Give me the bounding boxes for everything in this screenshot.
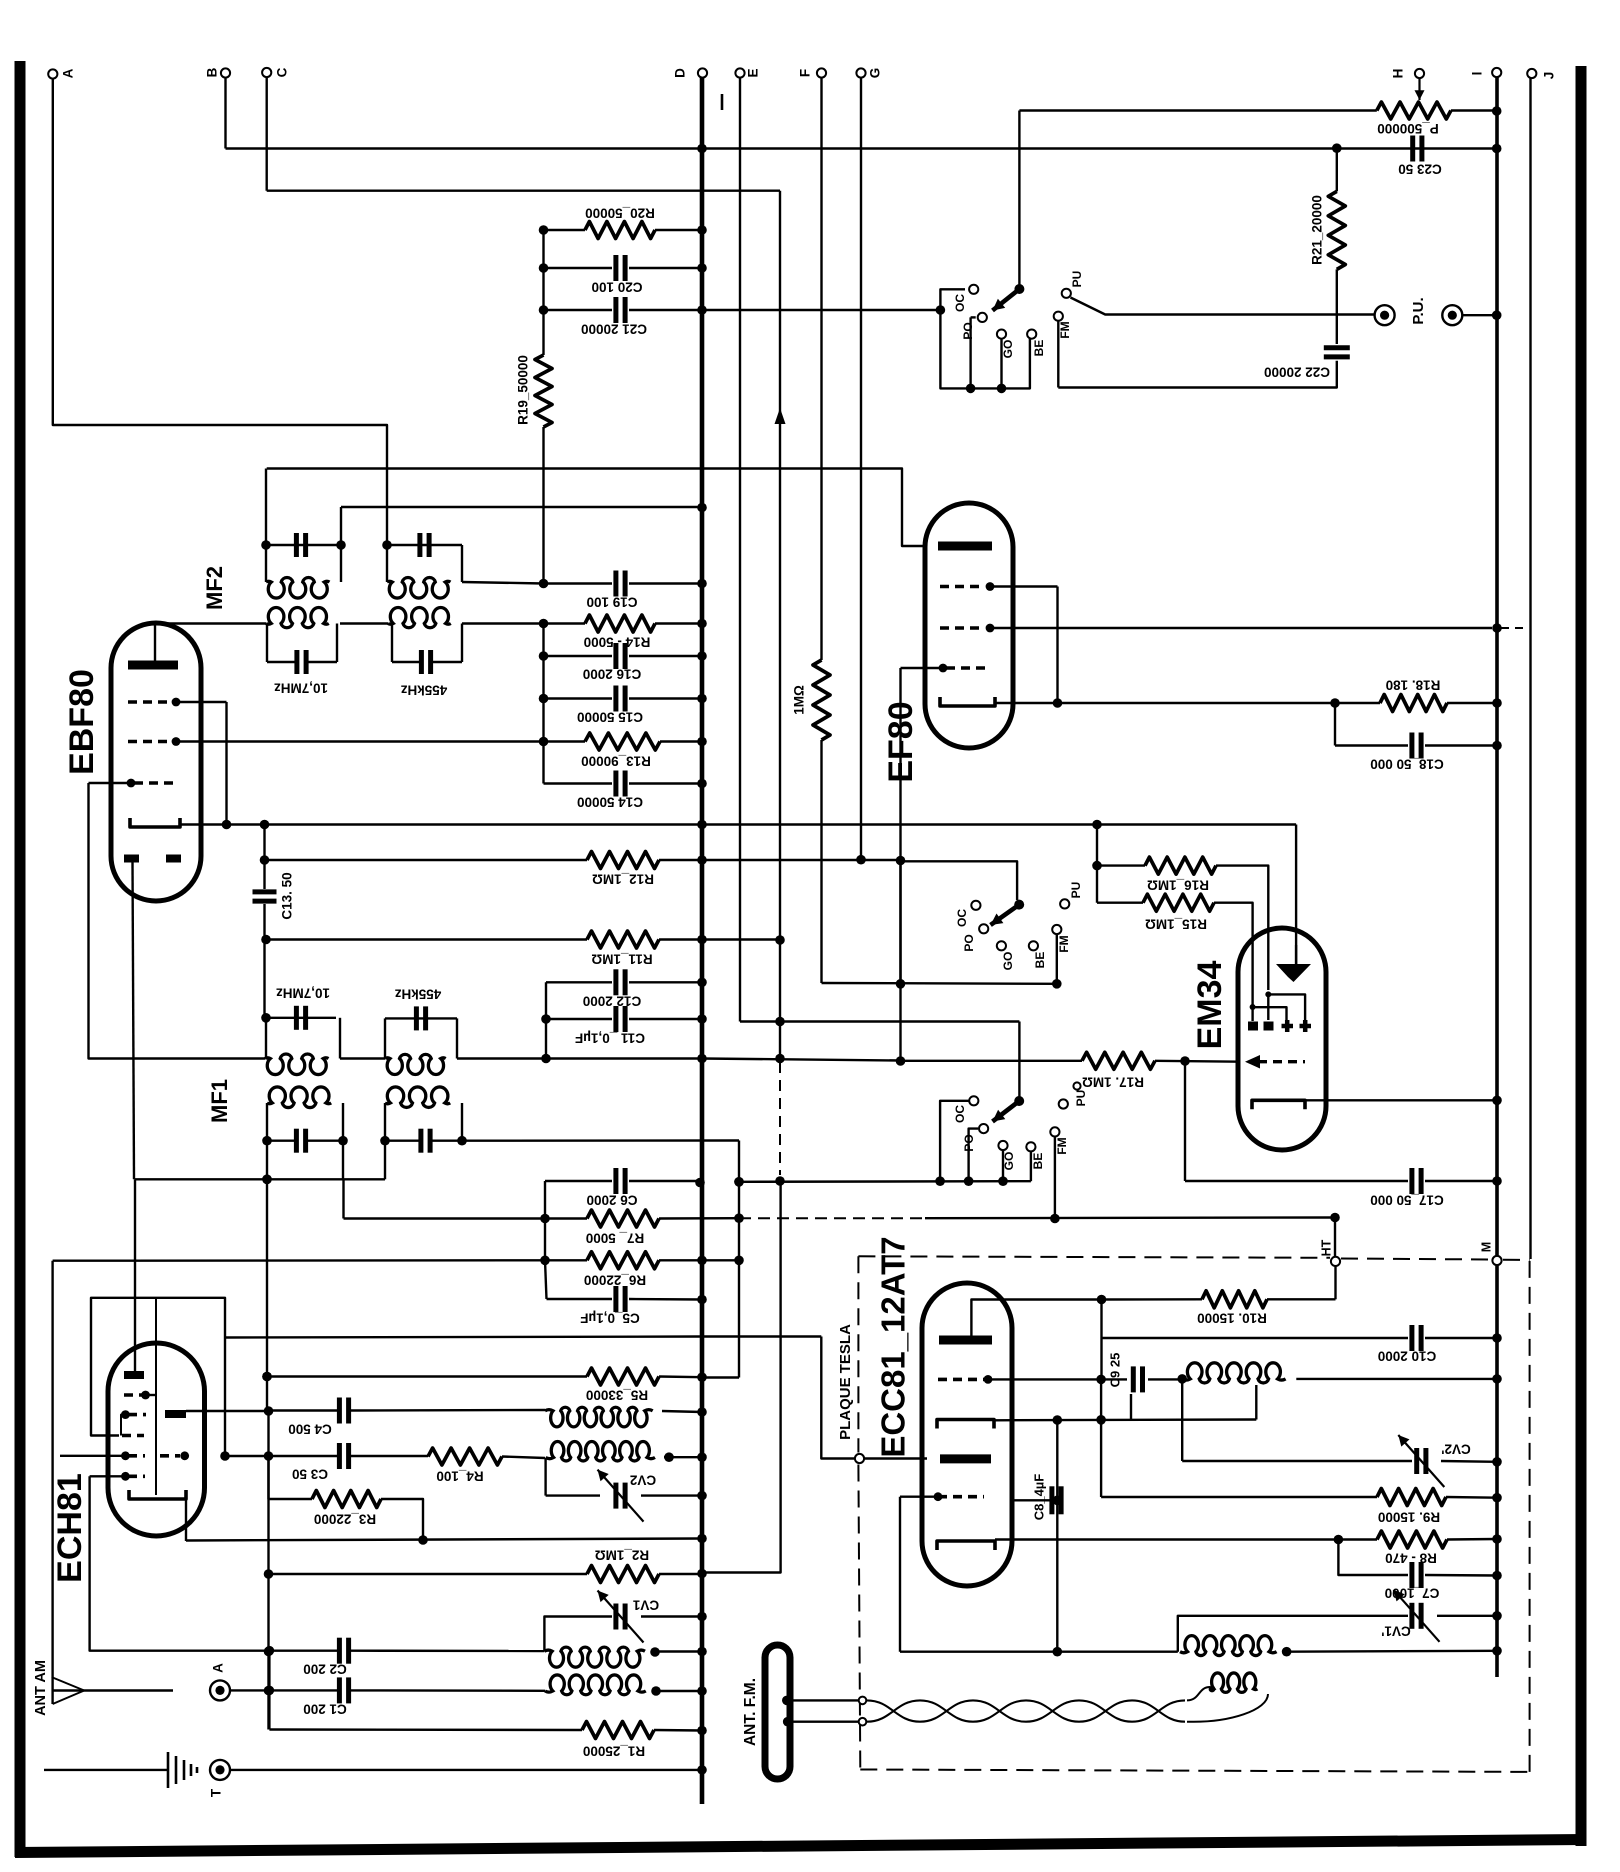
wire EF80 plate feed y468 — [267, 469, 927, 547]
label ECH81 — [51, 1473, 89, 1583]
node pot-bus — [1492, 106, 1502, 116]
label 10,7MHz MF2 — [274, 680, 328, 695]
switch S3 contact PO — [962, 1124, 988, 1181]
capacitor MF2-1 upper — [296, 533, 305, 557]
ECH81 top electrode — [124, 1343, 144, 1375]
svg-text:BE: BE — [1031, 1153, 1045, 1170]
switch S2 arm — [991, 900, 1025, 925]
svg-text:C17_50 000: C17_50 000 — [1370, 1192, 1444, 1207]
wire EM34 cathode to bus — [1305, 1096, 1502, 1106]
switch S2 contact OC — [955, 901, 980, 927]
wire rail C2-C1 — [268, 1651, 270, 1730]
wire MF1 upper cap line1 — [261, 1013, 336, 1023]
wire EF80 g1 down — [1056, 587, 1058, 704]
inductor MF2-1 upper coil — [266, 578, 329, 599]
wire CV1' riser — [1178, 1616, 1408, 1652]
svg-text:EBF80: EBF80 — [63, 669, 101, 775]
resistor R21 20000 — [1310, 191, 1346, 269]
wire line-A riser — [821, 1337, 855, 1459]
EF80 grid2 — [940, 624, 1492, 633]
wire B down — [224, 78, 226, 149]
wire MF2 secondary out y583 — [462, 582, 544, 584]
resistor R8 470 — [1377, 1531, 1502, 1565]
svg-text:FM: FM — [1057, 935, 1071, 952]
svg-text:EM34: EM34 — [1191, 961, 1229, 1050]
svg-text:FM: FM — [1055, 1137, 1069, 1154]
wire MF2-1 upper rails — [266, 469, 341, 583]
svg-text:R5_33000: R5_33000 — [586, 1387, 648, 1402]
EM34 electrode bars — [1248, 1022, 1274, 1031]
capacitor C23 50 — [1398, 136, 1442, 177]
wire F to switch2 net — [822, 982, 1057, 985]
wire MF1 coil link — [340, 1057, 385, 1059]
wire F down to 1M resistor — [820, 78, 822, 660]
wire ECH81 g5 down to C2 — [90, 1476, 270, 1650]
MF2 label — [202, 566, 227, 610]
svg-text:J: J — [1542, 72, 1557, 80]
svg-text:R3_22000: R3_22000 — [314, 1511, 376, 1526]
wire rail R7-R6 — [544, 1219, 546, 1261]
resistor R9 15000 — [1101, 1420, 1502, 1525]
svg-text:HT: HT — [1319, 1239, 1333, 1256]
svg-text:C14 50000: C14 50000 — [577, 794, 643, 809]
wire C vertical rail — [779, 191, 781, 1058]
label 10,7MHz MF1 — [276, 985, 330, 1000]
wire C22 down-left to switch1 FM — [1058, 361, 1337, 388]
wire switch2 feed — [901, 861, 1018, 984]
wire ECH81 plate out — [186, 1406, 273, 1416]
wire EF80 g3 riser — [896, 668, 906, 1066]
antenna ANT FM — [742, 1645, 790, 1779]
EM34 grid — [1245, 1055, 1305, 1069]
capacitor MF1-2 lower — [380, 1129, 467, 1153]
svg-text:CV2': CV2' — [1441, 1441, 1470, 1456]
wire E to switch3 pivot riser — [740, 1020, 1019, 1022]
svg-text:OC: OC — [955, 909, 969, 927]
ECH81 grid5 — [90, 1472, 145, 1481]
resistor R6 22000 — [53, 1252, 739, 1288]
node switch2 FM join — [1052, 979, 1062, 989]
svg-text:FM: FM — [1058, 321, 1072, 338]
svg-text:R6_22000: R6_22000 — [584, 1272, 646, 1287]
EM34 electrode plus2 — [1300, 1020, 1312, 1032]
wire E rail segment — [734, 1141, 744, 1378]
svg-text:A: A — [61, 68, 76, 78]
resistor R17 1M — [901, 1052, 1241, 1089]
svg-text:ANT. F.M.: ANT. F.M. — [742, 1678, 759, 1746]
ECC81 plate1 — [939, 1300, 1102, 1341]
terminal E — [735, 68, 760, 77]
node C23 right — [1492, 144, 1502, 154]
terminal A — [48, 68, 75, 78]
switch S2 contact PU — [1060, 882, 1083, 909]
inductor MF1-1 lower coil — [267, 1087, 331, 1108]
wire R6 corner to antenna — [51, 1261, 53, 1678]
resistor R1 25000 — [269, 1722, 706, 1759]
capacitor C18 50000 — [1335, 733, 1502, 772]
svg-text:M: M — [1479, 1242, 1493, 1252]
label EM34 — [1191, 961, 1229, 1050]
EM34 electrodes — [1250, 991, 1306, 1021]
capacitor C11 0.1uF — [541, 1006, 707, 1045]
svg-text:R20_50000: R20_50000 — [585, 205, 655, 220]
inductor FM coil — [1177, 1363, 1285, 1384]
terminal plaque tesla — [837, 1324, 864, 1463]
wire EF80 cathode line — [995, 698, 1380, 708]
inductor osc coil2 — [546, 1441, 674, 1462]
svg-text:455kHz: 455kHz — [400, 682, 447, 697]
terminal D — [673, 68, 708, 78]
svg-text:C4 500: C4 500 — [288, 1421, 332, 1436]
svg-text:R2_1MΩ: R2_1MΩ — [595, 1547, 650, 1562]
svg-text:A: A — [211, 1663, 226, 1673]
EF80 cathode — [940, 697, 995, 706]
capacitor MF1-1 upper — [296, 1006, 305, 1030]
wire line-A — [225, 1337, 821, 1338]
wire pot line — [1019, 109, 1496, 111]
tube EBF80 outline — [111, 623, 201, 901]
wire R17 node drop — [775, 1061, 1185, 1186]
node E-C cross — [775, 1017, 785, 1027]
wire B bus line y148 — [226, 147, 1497, 149]
jack P.U. left — [1375, 305, 1395, 325]
wire FM osc coil to bus — [1287, 1646, 1502, 1656]
wire MF1 jog y1179 — [135, 1141, 385, 1184]
wire R15R16 rail — [1092, 825, 1102, 903]
svg-text:C5_0,1µF: C5_0,1µF — [580, 1310, 640, 1325]
resistor R11 1M — [261, 931, 707, 966]
switch S2 contact PO — [962, 924, 988, 951]
potentiometer P 500000 — [1377, 102, 1451, 136]
wire C7 drop — [1338, 1540, 1408, 1576]
terminal B — [205, 67, 231, 77]
wire HT line dashed part — [739, 1217, 925, 1219]
capacitor C8 4uF — [1031, 1474, 1061, 1521]
wire rail R6-C5 — [545, 1260, 547, 1299]
inductor MF2-1 lower coil — [266, 607, 329, 627]
svg-text:C6 2000: C6 2000 — [586, 1192, 637, 1207]
MF1 label — [207, 1079, 232, 1123]
wire MF2-2 lower rails — [392, 624, 462, 663]
wire right bus I — [1495, 77, 1499, 1677]
jack T — [209, 1760, 230, 1797]
switch S3 contact FM — [1050, 1127, 1069, 1223]
switch S1 contact OC — [953, 285, 978, 312]
svg-text:CV1: CV1 — [632, 1597, 659, 1612]
svg-text:10,7MHz: 10,7MHz — [276, 985, 330, 1000]
svg-text:C3 50: C3 50 — [292, 1466, 328, 1481]
wire CV2' riser — [1181, 1379, 1183, 1461]
switch S3 contact PU — [1059, 1090, 1088, 1109]
switch S1 contact BE — [1027, 330, 1046, 357]
svg-text:C7_1000: C7_1000 — [1385, 1585, 1440, 1600]
svg-text:C19 100: C19 100 — [586, 594, 637, 609]
border frame bottom bar — [15, 1840, 1586, 1853]
resistor R12 1M — [260, 852, 901, 887]
EBF80 grid2 — [128, 737, 545, 746]
svg-text:10,7MHz: 10,7MHz — [274, 680, 328, 695]
wire A jack line — [230, 1686, 337, 1696]
label EF80 — [882, 701, 920, 782]
inductor osc coil1 — [545, 1407, 653, 1427]
svg-text:PLAQUE TESLA: PLAQUE TESLA — [837, 1324, 854, 1440]
wire C-line solid rail — [703, 1181, 781, 1573]
jack P.U. right — [1442, 305, 1462, 325]
svg-text:PU: PU — [1069, 882, 1083, 899]
svg-text:1MΩ: 1MΩ — [792, 685, 807, 715]
svg-text:R16_1MΩ: R16_1MΩ — [1147, 877, 1209, 892]
switch S3 contact GO — [998, 1141, 1016, 1181]
inductor FM coupling coil — [1209, 1673, 1258, 1692]
capacitor C7 1000 — [1385, 1562, 1502, 1600]
ECH81 plate hept — [165, 1410, 186, 1418]
resistor R3 22000 — [269, 1456, 424, 1540]
capacitor C4 500 — [269, 1398, 546, 1437]
inductor MF1-2 lower coil — [385, 1087, 450, 1108]
wire R10 line — [1097, 1295, 1202, 1305]
FM box dashed outline — [858, 1256, 1529, 1772]
inductor MF1-2 upper coil — [385, 1054, 446, 1074]
node MF1 out rail — [541, 1054, 551, 1064]
ECC81 cathode2 — [937, 1541, 995, 1550]
EF80 grid1 — [940, 582, 1058, 591]
svg-text:C1 200: C1 200 — [303, 1701, 347, 1716]
svg-text:PO: PO — [962, 1134, 976, 1151]
capacitor C13 50 — [253, 825, 295, 1018]
svg-text:R12_1MΩ: R12_1MΩ — [592, 871, 654, 886]
wire A terminal down-right-down to MF2 455kHz tank — [53, 79, 387, 543]
wire EBF80 heater lead — [133, 862, 135, 1179]
EM34 target — [1276, 945, 1311, 982]
jack A — [210, 1663, 230, 1701]
capacitor C3 50 — [225, 1443, 428, 1481]
capacitor C16 2000 — [539, 624, 707, 682]
wire C right — [267, 189, 780, 191]
wire AVC rail x267 — [262, 1141, 272, 1411]
wire C-node rail x543 — [542, 230, 544, 310]
svg-text:R4_100: R4_100 — [436, 1468, 483, 1483]
switch S1 contact FM — [1054, 312, 1072, 388]
resistor R13 90000 — [539, 699, 707, 769]
switch S2 contact FM — [1052, 925, 1071, 984]
wire C9 plate tap — [1130, 1394, 1132, 1420]
label 455kHz MF1 — [394, 986, 441, 1001]
resistor 1Mohm — [792, 660, 830, 740]
svg-text:C15 50000: C15 50000 — [577, 709, 643, 724]
ECC81 cathode1 — [937, 1420, 994, 1429]
wire coil1 to bus — [655, 1647, 707, 1657]
inductor MF2-2 upper coil — [387, 578, 450, 599]
wire rail C9-cath — [1100, 1379, 1102, 1419]
capacitor MF2-2 lower — [392, 650, 462, 674]
capacitor MF2-2 upper — [420, 533, 429, 557]
wire EBF80 plate to MF2 — [155, 622, 266, 624]
wire rail C12-C11 — [545, 982, 547, 1058]
resistor R18 180 — [1380, 677, 1502, 711]
wire AVC rail lower — [264, 1411, 274, 1730]
svg-text:P.U.: P.U. — [1410, 297, 1427, 324]
capacitor MF2-1 lower — [267, 650, 337, 674]
wire osc line1 — [662, 1407, 707, 1417]
wire E down — [739, 78, 741, 1022]
label PU pointer — [1073, 1082, 1080, 1089]
antenna ANT AM — [33, 1660, 173, 1716]
resistor R2 1M — [269, 1547, 707, 1582]
wire C8 rail — [1053, 1420, 1063, 1656]
svg-text:R19_50000: R19_50000 — [516, 355, 531, 425]
wire H wiper arrow — [1415, 78, 1425, 100]
wire ECH81 plate rail top — [134, 1179, 136, 1371]
svg-text:C21 20000: C21 20000 — [581, 321, 647, 336]
svg-text:C18_50 000: C18_50 000 — [1370, 756, 1444, 771]
tube EM34 outline — [1238, 928, 1326, 1150]
wire C down — [266, 77, 268, 191]
wire MF1-1 upper rails — [266, 1018, 340, 1059]
wire y507 to bus — [341, 503, 707, 513]
wire C rail dashes — [779, 1062, 781, 1175]
svg-text:PU: PU — [1070, 271, 1084, 288]
wire R21 top — [1336, 148, 1338, 191]
terminal M — [1479, 1242, 1501, 1265]
svg-text:GO: GO — [1002, 1152, 1016, 1171]
wire C21 net to switch1 — [936, 289, 965, 315]
node R20 top rail — [539, 225, 549, 235]
svg-text:ECC81_12AT7: ECC81_12AT7 — [875, 1236, 912, 1457]
ECH81 grid4 row — [121, 1451, 189, 1460]
EBF80 plate — [128, 623, 178, 665]
wire C18 drop — [1334, 703, 1336, 746]
wire T to bus — [230, 1765, 706, 1775]
terminal F — [798, 68, 827, 77]
wire MF2-1 lower rails — [267, 624, 337, 663]
wire feeder bottom — [783, 1717, 866, 1727]
border frame right bar — [1576, 66, 1587, 1846]
tube ECC81 outline — [922, 1283, 1012, 1586]
svg-text:C20 100: C20 100 — [591, 279, 642, 294]
EBF80 heater bars — [124, 855, 181, 863]
wire feeder top — [782, 1696, 866, 1706]
wire MF2-2 upper rails — [387, 545, 462, 582]
resistor R10 15000 — [1197, 1291, 1335, 1326]
wire R5 ext — [702, 1376, 739, 1378]
svg-text:C22 20000: C22 20000 — [1264, 364, 1330, 379]
wire HT line — [925, 1213, 1340, 1223]
wire ECH81 g4 left — [60, 1455, 125, 1457]
terminal H — [1391, 69, 1425, 79]
EBF80 grid1 — [128, 698, 227, 707]
capacitor C14 50000 — [544, 742, 707, 810]
wire C21 to switch1 — [702, 309, 940, 311]
terminal C — [262, 67, 289, 77]
tick I near bus — [721, 94, 724, 110]
svg-text:E: E — [746, 68, 761, 77]
capacitor C5 0.1uF — [547, 1286, 707, 1325]
wire C2 line — [265, 1646, 337, 1656]
node B-bus junction — [697, 144, 707, 154]
node g2 to I bus — [1492, 623, 1529, 633]
wire R7 stub — [342, 1179, 344, 1218]
svg-text:ECH81: ECH81 — [51, 1473, 89, 1583]
label P.U. — [1410, 297, 1427, 324]
capacitor C12 2000 — [546, 969, 707, 1008]
capacitor C15 50000 — [539, 656, 707, 724]
inductor MF2-2 lower coil — [388, 607, 451, 627]
svg-text:T: T — [209, 1788, 224, 1797]
EF80 plate — [938, 542, 992, 551]
resistor R5 33000 — [262, 1368, 707, 1402]
wire MF1 upper cap line2 — [385, 1017, 457, 1019]
svg-text:R7_ 5000: R7_ 5000 — [586, 1230, 645, 1245]
ECC81 grid2 — [900, 1492, 984, 1501]
svg-text:C23 50: C23 50 — [1398, 161, 1442, 176]
inductor MF1-1 upper coil — [265, 1054, 328, 1075]
capacitor C9 25 — [1107, 1353, 1182, 1393]
border frame left bar — [15, 61, 26, 1857]
capacitor C17 50000 — [1185, 1168, 1502, 1207]
wire switch3 pivot riser — [1018, 1022, 1020, 1102]
wire EM34 target riser — [1295, 825, 1297, 967]
wire rail R10-C10 — [1100, 1300, 1102, 1339]
inductor ant coil1 — [544, 1647, 659, 1667]
svg-text:C11 _0,1µF: C11 _0,1µF — [575, 1030, 645, 1045]
wire switch1 lower bus — [940, 310, 1030, 388]
label 455kHz MF2 — [400, 682, 447, 697]
ECH81 box wire — [91, 1298, 230, 1461]
ECH81 grid3 — [122, 1434, 144, 1438]
capacitor C22 20000 — [1264, 348, 1350, 380]
svg-text:ANT AM: ANT AM — [33, 1660, 49, 1716]
svg-text:OC: OC — [953, 294, 967, 312]
wire y507 rail up — [340, 507, 342, 543]
wire HT riser — [1334, 1218, 1336, 1257]
svg-text:P_500000: P_500000 — [1377, 121, 1439, 136]
EBF80 grid3 — [89, 779, 179, 788]
wire C17 segment1 — [734, 1176, 1031, 1186]
wire ECC81 cathode1 line — [994, 1415, 1256, 1425]
resistor R14 5000 — [584, 615, 707, 649]
wire ECC81 cathode2 line — [995, 1535, 1377, 1545]
svg-text:B: B — [205, 67, 220, 77]
svg-text:R15_1MΩ: R15_1MΩ — [1145, 916, 1207, 931]
wire rail C10-C9 — [1100, 1338, 1102, 1379]
svg-text:R1_25000: R1_25000 — [583, 1743, 645, 1758]
switch S3 contact OC — [940, 1096, 978, 1181]
svg-text:C10 2000: C10 2000 — [1378, 1348, 1437, 1363]
resistor R4 100 — [428, 1448, 545, 1483]
wire osc FM line — [900, 1650, 1178, 1652]
svg-text:MF1: MF1 — [207, 1079, 232, 1123]
svg-text:C: C — [275, 67, 290, 77]
wire MF2 upper cap line 2 — [382, 540, 462, 550]
arrow on C rail — [775, 408, 786, 424]
capacitor MF1-2 upper — [416, 1006, 425, 1030]
terminal I — [1470, 68, 1502, 77]
wire ECH81 cathode line — [186, 1534, 707, 1545]
node C23 left — [1332, 143, 1342, 153]
capacitor C20 100 — [539, 255, 707, 294]
svg-text:GO: GO — [1001, 340, 1015, 359]
resistor R15 1M — [1097, 894, 1253, 1005]
switch S2 contact GO — [997, 941, 1015, 970]
wire osc coil2 to bus — [664, 1452, 707, 1462]
inductor FM osc coil — [1180, 1636, 1291, 1657]
terminal G — [856, 68, 882, 79]
wire FM coil to bus — [1296, 1374, 1501, 1384]
wire CV1 line — [544, 1617, 612, 1652]
svg-text:F: F — [798, 69, 813, 77]
svg-text:C8_4µF: C8_4µF — [1031, 1474, 1046, 1521]
capacitor C2 200 — [303, 1638, 544, 1677]
